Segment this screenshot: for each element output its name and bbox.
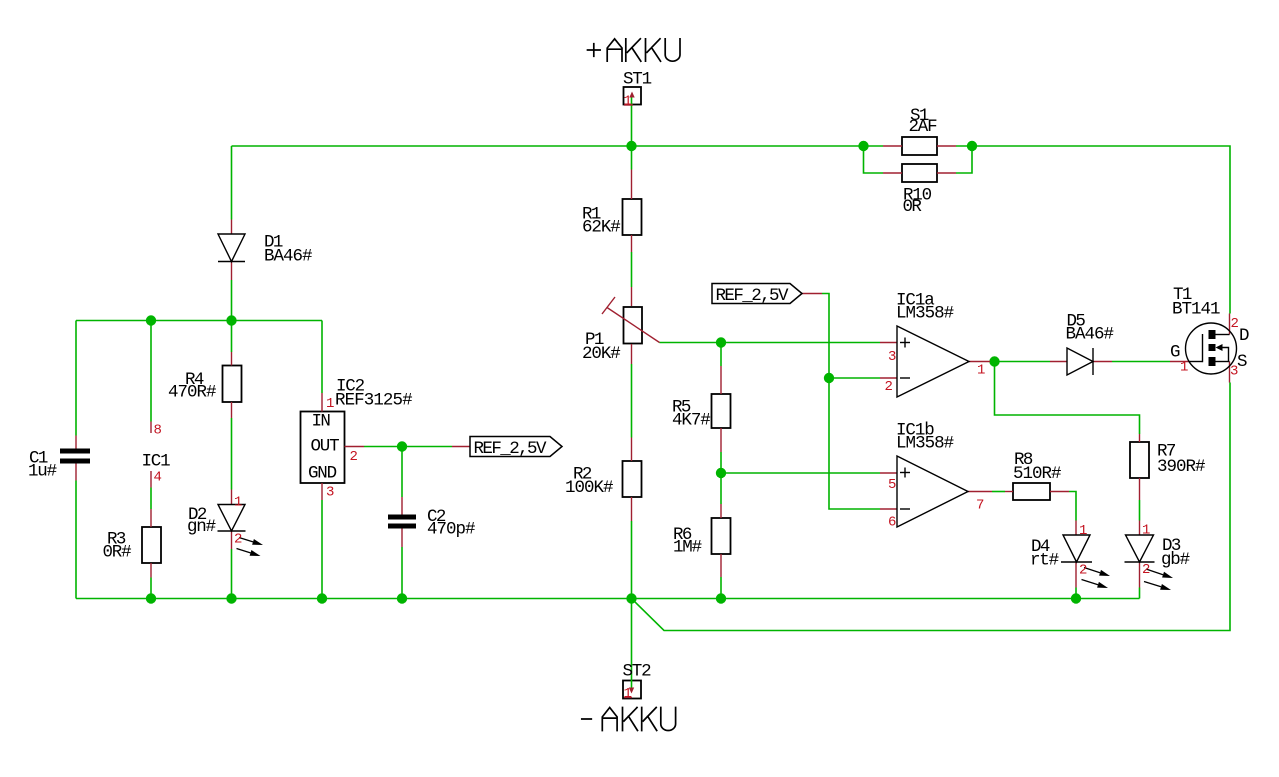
svg-text:2: 2 [885, 379, 893, 395]
svg-text:1: 1 [624, 94, 632, 110]
svg-text:ST2: ST2 [623, 662, 652, 682]
svg-text:REF_2,5V: REF_2,5V [474, 439, 547, 459]
svg-text:D: D [1239, 326, 1250, 346]
svg-text:G: G [1170, 343, 1181, 363]
svg-text:REF_2,5V: REF_2,5V [716, 286, 789, 306]
svg-text:IN: IN [312, 412, 331, 432]
svg-text:100K#: 100K# [565, 478, 614, 498]
svg-text:470p#: 470p# [427, 520, 476, 540]
svg-text:LM358#: LM358# [896, 304, 954, 324]
svg-text:BA46#: BA46# [1066, 325, 1115, 345]
svg-text:gn#: gn# [187, 517, 216, 537]
svg-text:2: 2 [1142, 562, 1150, 578]
svg-text:1: 1 [1142, 523, 1150, 539]
svg-text:2: 2 [350, 449, 358, 465]
svg-text:2: 2 [1231, 316, 1239, 332]
svg-text:7: 7 [976, 498, 984, 514]
svg-text:4: 4 [154, 470, 162, 486]
svg-text:IC1: IC1 [142, 452, 171, 472]
svg-text:OUT: OUT [311, 437, 340, 457]
svg-text:1: 1 [1180, 360, 1188, 376]
svg-text:4K7#: 4K7# [672, 411, 711, 431]
svg-text:2: 2 [1079, 563, 1087, 579]
svg-text:1u#: 1u# [28, 462, 57, 482]
svg-text:3: 3 [326, 485, 334, 501]
svg-text:0R#: 0R# [103, 543, 132, 563]
svg-text:GND: GND [308, 464, 337, 484]
svg-text:1: 1 [977, 363, 985, 379]
svg-text:1: 1 [1079, 523, 1087, 539]
svg-text:8: 8 [154, 423, 162, 439]
svg-text:ST1: ST1 [623, 70, 652, 90]
svg-text:rt#: rt# [1030, 551, 1059, 571]
svg-text:BA46#: BA46# [264, 247, 313, 267]
svg-text:470R#: 470R# [168, 383, 217, 403]
svg-text:3: 3 [888, 349, 896, 365]
svg-text:1: 1 [234, 495, 242, 511]
svg-text:20K#: 20K# [582, 344, 621, 364]
svg-text:390R#: 390R# [1157, 457, 1206, 477]
svg-text:62K#: 62K# [582, 218, 621, 238]
svg-text:2AF: 2AF [909, 117, 938, 137]
svg-text:1M#: 1M# [673, 538, 702, 558]
svg-text:6: 6 [888, 515, 896, 531]
svg-text:LM358#: LM358# [896, 434, 954, 454]
svg-text:5: 5 [888, 477, 896, 493]
svg-text:3: 3 [1230, 364, 1238, 380]
svg-text:1: 1 [326, 396, 334, 412]
svg-text:0R: 0R [903, 197, 923, 217]
svg-text:S: S [1237, 352, 1248, 372]
svg-text:REF3125#: REF3125# [335, 391, 413, 411]
svg-text:1: 1 [624, 686, 632, 702]
svg-text:gb#: gb# [1161, 550, 1190, 570]
svg-text:2: 2 [234, 532, 242, 548]
svg-text:510R#: 510R# [1013, 464, 1062, 484]
svg-text:BT141: BT141 [1172, 300, 1221, 320]
